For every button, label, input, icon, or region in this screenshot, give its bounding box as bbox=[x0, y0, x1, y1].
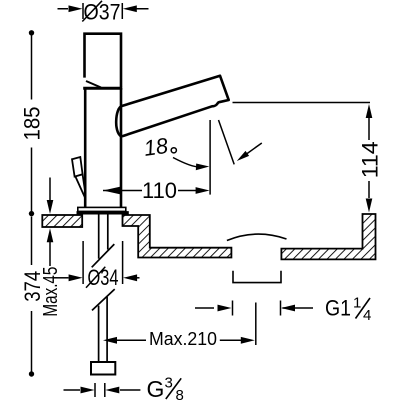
svg-text:3: 3 bbox=[165, 375, 173, 392]
svg-text:18: 18 bbox=[142, 133, 170, 161]
svg-text:Max.210: Max.210 bbox=[149, 328, 217, 349]
svg-text:Max.45: Max.45 bbox=[40, 267, 62, 317]
svg-text:4: 4 bbox=[363, 307, 371, 324]
svg-text:O37: O37 bbox=[84, 0, 121, 25]
svg-text:1: 1 bbox=[353, 295, 361, 312]
svg-text:G: G bbox=[147, 376, 165, 400]
svg-text:185: 185 bbox=[20, 107, 45, 141]
svg-text:G1: G1 bbox=[325, 296, 351, 321]
svg-text:8: 8 bbox=[176, 387, 184, 400]
svg-text:110: 110 bbox=[142, 178, 177, 203]
svg-text:114: 114 bbox=[358, 141, 383, 178]
